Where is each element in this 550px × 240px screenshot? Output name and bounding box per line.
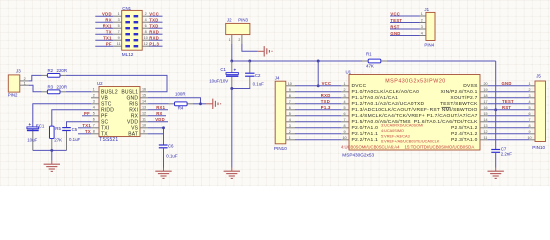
svg-text:3: 3 [93,100,95,104]
svg-text:VCC: VCC [322,81,332,86]
svg-text:R3: R3 [48,85,54,90]
svg-text:VDD: VDD [155,117,165,122]
earth ground (left group) [51,161,53,165]
connector J3 PIN2 body [8,75,19,92]
resistor R3 [47,90,60,94]
node C1/C2 junction [230,87,233,90]
svg-text:0.1uF: 0.1uF [69,137,81,142]
node VCC rail junction drop [317,60,320,63]
wire J3 pin2 to R2 [29,75,42,81]
capacitor C6 [159,144,168,146]
svg-text:R1: R1 [366,52,372,57]
svg-text:4:UCA0SIMO: 4:UCA0SIMO [381,129,404,133]
svg-text:1: 1 [421,12,423,16]
svg-text:5: 5 [289,112,291,116]
svg-text:RX: RX [105,18,111,23]
svg-text:XOUT/P2.7: XOUT/P2.7 [450,95,477,101]
svg-text:P1.6/TA0.1/CA6/TDI/TCLK: P1.6/TA0.1/CA6/TDI/TCLK [414,119,478,125]
svg-text:CN1: CN1 [122,6,131,11]
svg-text:XIN/P2.6/TA0.1: XIN/P2.6/TA0.1 [440,89,477,95]
svg-text:5: 5 [93,112,95,116]
wire STC to EC1 [33,104,91,127]
node VS/BAT junction [162,126,165,129]
capacitor C1 stubs [231,61,233,73]
svg-text:PIN10: PIN10 [532,145,545,150]
svg-text:1: 1 [229,38,231,42]
svg-text:7: 7 [93,124,95,128]
svg-text:15: 15 [142,94,146,98]
svg-text:47K: 47K [366,64,374,69]
svg-text:R2: R2 [48,68,54,73]
svg-text:VDD: VDD [102,12,112,17]
svg-text:2: 2 [145,12,147,16]
svg-text:15:TDO/TDI/UCB0SIMO/UCB0SDA: 15:TDO/TDI/UCB0SIMO/UCB0SDA [405,144,475,149]
svg-text:RX1: RX1 [156,105,165,110]
svg-text:RXD: RXD [321,93,331,98]
wire ground rail [33,149,67,151]
node VCC rail junction J2 [230,60,233,63]
svg-text:4: 4 [93,106,95,110]
wire R3 to BUSL2 [66,91,91,93]
svg-text:BAT: BAT [128,131,138,137]
svg-text:TXD: TXD [321,99,330,104]
svg-text:10: 10 [144,36,148,40]
svg-text:VCC: VCC [149,12,159,17]
svg-text:8: 8 [289,94,291,98]
svg-text:7: 7 [289,100,291,104]
svg-text:4: 4 [145,18,147,22]
svg-text:11: 11 [484,136,488,140]
op-amp U2 TSS521 body [99,87,140,137]
svg-text:4:UCB0SOMI/UCB0SCL/A6:A4: 4:UCB0SOMI/UCB0SCL/A6:A4 [341,144,400,149]
svg-text:MSP430G2x53: MSP430G2x53 [342,152,374,157]
capacitor C5 [62,127,71,129]
svg-text:4: 4 [289,118,291,122]
svg-text:DVSS: DVSS [463,83,478,89]
J2 pin 2 stub [241,35,243,44]
resistor R2 [47,74,60,78]
net label TX1 wire [78,127,91,129]
svg-text:7: 7 [118,30,120,34]
svg-text:4: 4 [528,100,530,104]
svg-text:12: 12 [144,42,148,46]
svg-text:P1.7/CAOUT/A7/CA7: P1.7/CAOUT/A7/CA7 [427,113,478,119]
svg-text:2: 2 [24,77,26,81]
svg-text:TEST: TEST [502,99,514,104]
svg-text:P1.3/ADC10CLK/CAOUT/VREF-: P1.3/ADC10CLK/CAOUT/VREF- [352,107,430,113]
svg-text:DVCC: DVCC [352,83,367,89]
U2 pin stubs [91,91,99,93]
svg-text:6: 6 [343,112,345,116]
svg-text:TX: TX [101,131,108,137]
svg-text:1: 1 [289,136,291,140]
svg-text:3: 3 [528,94,530,98]
svg-text:27K: 27K [54,137,62,142]
svg-text:220R: 220R [57,85,68,90]
wire C6 branch vertical [163,128,165,145]
svg-text:4: 4 [421,32,423,36]
svg-text:10: 10 [342,136,346,140]
svg-text:220R: 220R [57,68,68,73]
svg-text:TXD: TXD [149,18,158,23]
resistor R1 pins [362,60,368,62]
svg-text:2: 2 [421,19,423,23]
wire C2 bottom to C1 line [232,88,250,89]
svg-text:PIN2: PIN2 [8,92,18,97]
earth ground (C6) [163,168,165,172]
svg-text:11: 11 [142,118,146,122]
svg-text:J2: J2 [227,18,232,23]
svg-text:ML12: ML12 [122,52,134,57]
svg-text:C1: C1 [220,67,226,72]
power ground (J2) [258,50,264,52]
svg-text:RX: RX [156,111,162,116]
svg-text:10: 10 [142,124,146,128]
wire C7 to ground [495,152,497,167]
svg-text:J3: J3 [16,69,21,74]
net label RX wire [148,115,166,117]
svg-text:8: 8 [528,124,530,128]
svg-text:P2.3/TA1.0: P2.3/TA1.0 [451,137,478,143]
svg-text:U1: U1 [346,70,352,75]
svg-text:1: 1 [24,81,26,85]
svg-text:6: 6 [528,112,530,116]
capacitor EC1 (electrolytic) [27,127,39,129]
connector J4 PIN10 body [275,81,286,144]
wire BAT to C6 [148,133,164,135]
svg-text:P2.5/TA1.2: P2.5/TA1.2 [451,125,478,131]
svg-text:TSS521: TSS521 [99,137,118,143]
resistor R4 [175,102,188,106]
node VCC row junction [317,84,320,87]
svg-text:6:VREF+/A6/UCB0STE/UCA0CLK: 6:VREF+/A6/UCB0STE/UCA0CLK [381,140,440,144]
node RST junction [494,108,497,111]
capacitor C5 stub [66,131,68,151]
resistor R1 [368,59,381,63]
U1 RST overline [442,106,451,108]
connector J5 PIN10 body [535,81,546,142]
op-amp U1 MSP430 body [349,75,480,151]
svg-text:TX1: TX1 [103,36,112,41]
connector J1 PIN4 body [426,12,435,40]
earth ground (C7) [495,168,497,172]
wire J2 pin2 to ground [242,44,258,51]
svg-text:EC1: EC1 [36,123,45,128]
svg-text:PIN3: PIN3 [238,18,248,23]
wire R4 to ground [193,103,206,105]
capacitor C2 stubs [249,61,251,73]
wire R1 to RST net [495,61,497,110]
svg-text:GND: GND [502,81,512,86]
svg-text:9: 9 [143,130,145,134]
svg-text:1: 1 [528,82,530,86]
svg-text:TX: TX [106,30,112,35]
svg-text:10uF/10V: 10uF/10V [209,79,228,84]
wire GND pin to RIS node [148,98,201,104]
svg-text:16: 16 [142,88,146,92]
svg-text:12: 12 [483,130,487,134]
svg-text:5: 5 [343,106,345,110]
svg-text:PIN10: PIN10 [274,146,287,151]
svg-text:14: 14 [142,100,146,104]
svg-text:P2.4/TA1.2: P2.4/TA1.2 [451,131,478,137]
svg-text:P2.0/TA1.0: P2.0/TA1.0 [352,125,379,131]
svg-text:TXD: TXD [149,24,158,29]
capacitor C1 (electrolytic) [226,73,238,75]
svg-text:0.1uF: 0.1uF [166,153,178,158]
svg-text:P1.3: P1.3 [149,42,159,47]
svg-text:10: 10 [527,136,531,140]
svg-text:2: 2 [289,130,291,134]
svg-text:11: 11 [117,42,121,46]
capacitor EC1 stubs [32,127,34,151]
svg-text:R5: R5 [55,126,61,131]
svg-text:9: 9 [343,130,345,134]
svg-text:P2.2/TA1.1: P2.2/TA1.1 [352,137,379,143]
svg-text:12: 12 [142,112,146,116]
wire J3 pin1 to R3 [29,85,42,92]
svg-text:R4: R4 [178,106,184,111]
wire ground stem [51,150,53,160]
svg-text:100R: 100R [175,91,186,96]
wire VCC rail [232,60,362,62]
svg-text:9: 9 [289,88,291,92]
svg-text:+: + [234,68,237,73]
svg-text:RXD: RXD [149,30,159,35]
svg-text:RXD: RXD [149,36,159,41]
wire J2 pin1 to VCC rail [231,44,233,61]
svg-text:RX1: RX1 [103,24,112,29]
wire C6 to ground [163,148,165,168]
svg-text:1: 1 [93,88,95,92]
svg-text:+: + [29,122,32,127]
svg-text:1: 1 [343,82,345,86]
svg-text:PF: PF [84,111,90,116]
svg-text:7: 7 [343,118,345,122]
svg-text:5: 5 [118,24,120,28]
svg-text:3: 3 [289,124,291,128]
svg-text:RST: RST [390,24,399,29]
net label RX1 wire [148,109,168,111]
wire R2 to BUSL1 [66,75,167,91]
CN1 pin wires [95,15,113,17]
svg-text:J4: J4 [275,76,280,81]
svg-text:PIN4: PIN4 [424,42,434,47]
resistor R5 stub [51,138,53,150]
svg-text:8: 8 [93,130,95,134]
svg-text:2: 2 [93,94,95,98]
wire RST to C7 [495,110,497,149]
node R4 ground junction [199,102,202,105]
svg-text:C5: C5 [72,127,78,132]
wire C1 branch down [231,89,233,168]
svg-text:P1.2/TA0.1/A2/CA2/UCA0TXD: P1.2/TA0.1/A2/CA2/UCA0TXD [352,101,425,107]
svg-text:VCC: VCC [390,11,400,16]
svg-text:P1.0/TA0CLK/ACLK/A0/CA0: P1.0/TA0CLK/ACLK/A0/CA0 [352,89,420,95]
svg-text:J5: J5 [536,74,541,79]
connector J2 PIN3 body [226,23,250,34]
svg-text:9: 9 [118,36,120,40]
net label VDD wire [148,121,168,123]
net label TX wire [78,133,91,135]
connector CN1 ML12 body [122,10,143,50]
resistor R4 pins [148,103,169,105]
resistor R5 [50,126,55,138]
svg-text:J1: J1 [424,7,429,12]
svg-text:4: 4 [343,100,345,104]
J5 pin wires [480,85,488,87]
svg-text:1: 1 [118,12,120,16]
capacitor C7 [491,149,500,151]
resistor R3 pins [42,91,48,93]
svg-text:2: 2 [238,38,240,42]
wire VS to C6 [148,127,164,129]
svg-text:PF: PF [106,42,112,47]
CN1 pads [125,15,130,17]
svg-text:3: 3 [421,25,423,29]
earth ground (C1 branch) [231,168,233,172]
svg-text:P1.4/SMCLK/CA4/TCK/VREF+: P1.4/SMCLK/CA4/TCK/VREF+ [352,113,426,119]
svg-text:C6: C6 [168,144,174,149]
svg-text:2: 2 [343,88,345,92]
J1 pin wires [390,15,420,17]
svg-text:TX: TX [85,129,91,134]
svg-text:P2.1/TA1.1: P2.1/TA1.1 [352,131,379,137]
J3 pin stubs [20,80,29,82]
net label PF wire [82,115,91,117]
svg-text:0.1uF: 0.1uF [253,82,265,87]
svg-text:13: 13 [142,106,146,110]
svg-text:5: 5 [528,106,530,110]
svg-text:10: 10 [288,82,292,86]
svg-text:6: 6 [93,118,95,122]
svg-text:3: 3 [118,18,120,22]
svg-text:GND: GND [390,31,400,36]
node VCC rail junction C2 [248,60,251,63]
svg-text:TEST/SBWTCK: TEST/SBWTCK [440,101,478,107]
svg-text:9: 9 [528,130,530,134]
capacitor C2 [245,72,254,74]
J2 pin 1 stub [231,35,233,44]
wire RIDD to R5 [52,110,91,126]
svg-text:RST: RST [502,105,511,110]
svg-text:8: 8 [145,30,147,34]
resistor R2 pins [42,74,48,76]
svg-text:6: 6 [289,106,291,110]
svg-text:2.2nF: 2.2nF [501,151,513,156]
wire SC to C5 [67,122,92,128]
svg-text:U2: U2 [97,81,103,86]
svg-text:5:VREF-/A3/CA3: 5:VREF-/A3/CA3 [381,134,410,138]
svg-text:3:UCA0RXD/UCA0SOMI: 3:UCA0RXD/UCA0SOMI [381,124,423,128]
svg-text:P1.3: P1.3 [321,105,331,110]
wire VCC drop to DVCC row [317,61,319,86]
power ground (R4) [206,103,212,105]
node ground rail junction [50,149,53,152]
svg-text:10uF: 10uF [27,137,37,142]
svg-text:TEST: TEST [390,18,402,23]
svg-text:3: 3 [343,94,345,98]
svg-text:P1.1/TA0.0/A1/CA1: P1.1/TA0.0/A1/CA1 [352,95,399,101]
svg-text:RST NMI/SBWTDIO: RST NMI/SBWTDIO [430,107,478,113]
J4 pin wires [286,85,296,87]
svg-text:6: 6 [145,24,147,28]
svg-text:C2: C2 [255,73,261,78]
svg-text:8: 8 [343,124,345,128]
svg-text:MSP430G2x53IPW20: MSP430G2x53IPW20 [385,79,446,85]
svg-text:2: 2 [528,88,530,92]
svg-text:TX1: TX1 [82,123,91,128]
svg-text:7: 7 [528,118,530,122]
